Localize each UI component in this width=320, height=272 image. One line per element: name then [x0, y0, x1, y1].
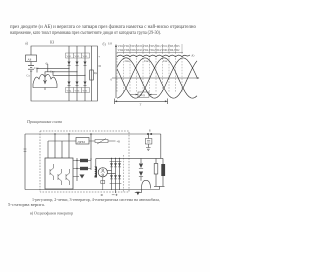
svg-text:а): а): [25, 42, 29, 46]
svg-text:Rд: Rд: [94, 72, 98, 75]
svg-text:VD4: VD4: [67, 90, 73, 93]
svg-text:Т: Т: [140, 102, 142, 106]
svg-text:VD1: VD1: [67, 55, 73, 58]
svg-text:+Б: +Б: [117, 140, 121, 144]
svg-text:VD6: VD6: [75, 90, 81, 93]
svg-text:ΔUд: ΔUд: [139, 93, 145, 97]
svg-text:през диодите (и АБ) и веригата: през диодите (и АБ) и веригата се затвар…: [10, 25, 196, 30]
svg-text:напрежение, като токът премина: напрежение, като токът преминава през съ…: [10, 31, 161, 36]
svg-text:ДРМ: ДРМ: [77, 140, 85, 144]
svg-text:Принципиална схема: Принципиална схема: [26, 119, 62, 124]
svg-text:Б: Б: [149, 129, 151, 133]
svg-text:VD2: VD2: [83, 90, 89, 93]
svg-text:КЗ: КЗ: [50, 41, 54, 45]
svg-text:5-статорна верига.: 5-статорна верига.: [8, 202, 45, 207]
svg-text:б): б): [103, 43, 107, 47]
svg-text:VD1,VD1,VD3,VD3,VD5,VD5,VD1,VD: VD1,VD1,VD3,VD3,VD5,VD5,VD1,VD1,VD3,VD3: [118, 45, 181, 48]
svg-text:в) Осцилофазен генератор: в) Осцилофазен генератор: [30, 211, 73, 216]
svg-text:1-регулатор, 2-четки, 3-генера: 1-регулатор, 2-четки, 3-генератор, 4-еле…: [32, 197, 160, 203]
svg-text:VD3: VD3: [75, 55, 81, 58]
svg-text:Uд: Uд: [108, 42, 112, 46]
svg-text:+: +: [98, 55, 100, 59]
svg-text:Сл: Сл: [27, 75, 31, 78]
svg-text:VD4,VD6,VD6,VD2,VD2,VD4,VD4,VD: VD4,VD6,VD6,VD2,VD2,VD4,VD4,VD6,VD6,VD2: [118, 49, 181, 52]
svg-text:VD5: VD5: [83, 55, 89, 58]
svg-text:АБ: АБ: [28, 57, 32, 61]
svg-text:Кг: Кг: [191, 54, 196, 58]
